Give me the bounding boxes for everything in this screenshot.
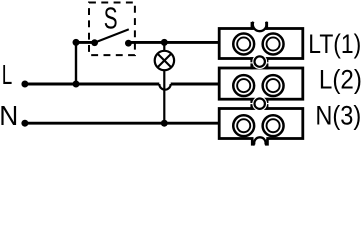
svg-text:LT(1): LT(1) bbox=[308, 29, 361, 59]
svg-text:L: L bbox=[2, 59, 13, 90]
svg-text:S: S bbox=[104, 1, 118, 35]
svg-text:N(3): N(3) bbox=[315, 101, 361, 131]
svg-text:N: N bbox=[0, 100, 18, 131]
svg-text:L(2): L(2) bbox=[319, 64, 361, 94]
